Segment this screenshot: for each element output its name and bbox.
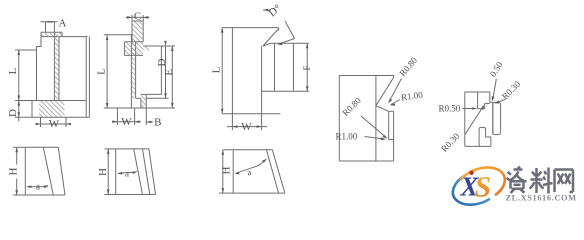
figure 5 outline [465, 92, 501, 146]
trapezoid 3 outline [219, 150, 285, 193]
svg-text:A: A [59, 18, 67, 30]
logo chinese char wang [555, 170, 574, 193]
figure 2 outline [104, 21, 162, 108]
figure 3 outline [222, 28, 309, 114]
figure 2 hatch step [124, 42, 143, 56]
dimension W (fig1) [36, 117, 70, 127]
dimension A [41, 22, 58, 32]
leader for D deg [279, 21, 295, 44]
figure 4 outline [339, 76, 393, 162]
figure 2 hatch patch under plate top [143, 46, 150, 51]
dimension W (fig3) [227, 114, 267, 130]
logo ellipse blue arc [453, 175, 490, 204]
svg-text:ZL.XS1616.COM: ZL.XS1616.COM [506, 193, 577, 202]
svg-text:H: H [97, 168, 109, 176]
svg-text:D: D [156, 58, 168, 66]
dimension F (fig3) [306, 43, 308, 91]
logo chinese char zi [507, 167, 527, 194]
dimension E (fig2) [146, 46, 175, 108]
angle label D deg (fig3) [263, 9, 271, 11]
svg-text:R1.00: R1.00 [336, 132, 358, 142]
svg-text:F: F [302, 65, 312, 70]
svg-text:a: a [36, 182, 40, 192]
svg-text:a: a [125, 169, 129, 179]
svg-text:W: W [49, 118, 60, 130]
svg-text:E: E [163, 69, 175, 76]
svg-text:S: S [475, 171, 492, 204]
dimension H (trapezoid 2) [107, 149, 109, 195]
dimension H (trapezoid 1) [16, 147, 18, 164]
trapezoid 2 outline [105, 149, 156, 195]
logo chinese char liao [530, 168, 553, 194]
figure 2 hatch foot [141, 94, 146, 108]
logo red dot [469, 171, 473, 175]
figure 2 hatch tab [132, 21, 143, 42]
svg-text:W: W [121, 116, 132, 128]
svg-text:R0.50: R0.50 [439, 104, 461, 114]
logo ellipse orange arc [461, 167, 505, 195]
dimension B (fig2) [146, 108, 153, 125]
figure 1 hatch foot [39, 101, 65, 117]
figure 1 outline [32, 32, 89, 117]
dimension L (fig3) [221, 28, 223, 114]
dimension H (trapezoid 3) [222, 150, 224, 193]
dimension C [126, 15, 150, 21]
dimension W (fig2) [112, 108, 141, 125]
dimension D (fig1) [15, 101, 32, 122]
figure 1 hatch lip [41, 32, 63, 36]
dimension L (fig2) [106, 35, 108, 108]
angle a (trapezoid 1) [28, 186, 48, 188]
svg-text:H: H [7, 167, 19, 175]
svg-text:B: B [154, 117, 161, 129]
svg-text:L: L [7, 67, 19, 74]
figure 2 hatch wall [131, 42, 135, 99]
svg-text:C: C [134, 10, 141, 22]
svg-text:L: L [211, 66, 223, 73]
trapezoid 1 outline [13, 147, 65, 195]
svg-text:D: D [7, 109, 19, 117]
svg-text:L: L [96, 68, 108, 75]
dimension D (fig2) [146, 46, 168, 98]
angle a (trapezoid 3) [236, 160, 266, 174]
svg-text:W: W [241, 121, 252, 133]
angle a (trapezoid 2) [119, 172, 135, 173]
figure 1 hatch wall [54, 37, 59, 101]
dimension L (fig1) [15, 50, 37, 101]
svg-text:H: H [221, 166, 233, 174]
